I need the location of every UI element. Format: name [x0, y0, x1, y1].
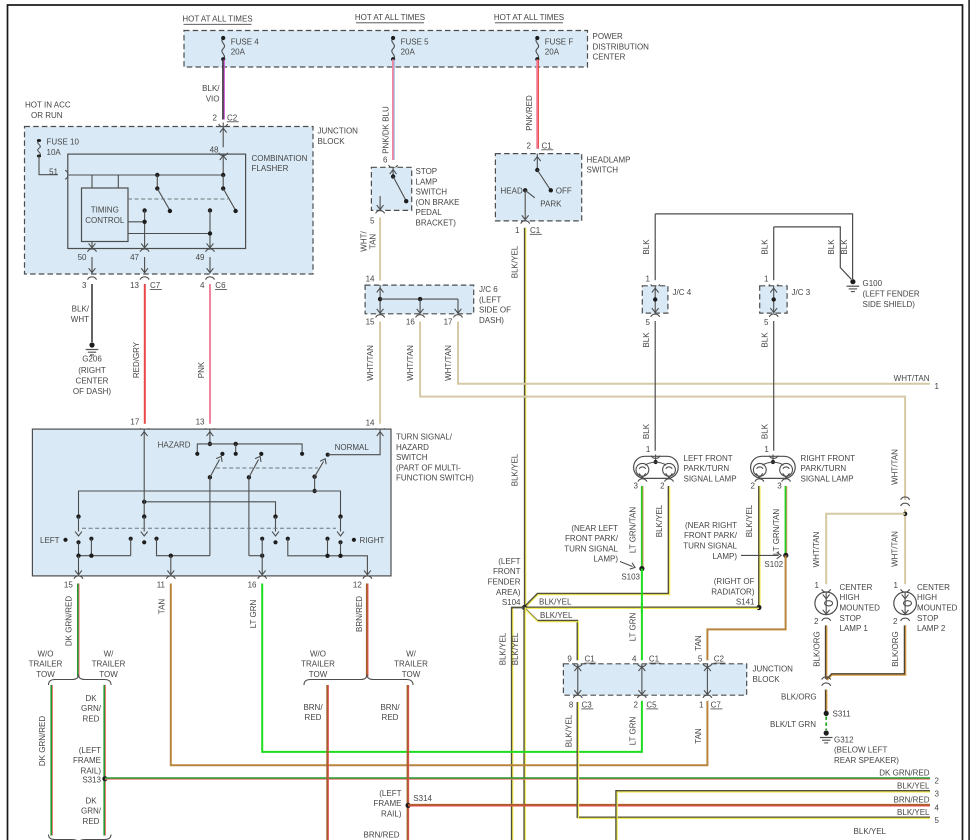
svg-text:5: 5: [764, 318, 769, 327]
wire DK GRN/RED S313 to stub 2: [105, 777, 930, 779]
svg-text:BLK/YEL: BLK/YEL: [854, 827, 887, 836]
svg-text:C2: C2: [714, 655, 725, 664]
svg-text:CENTER: CENTER: [593, 53, 626, 62]
svg-text:C7: C7: [711, 700, 722, 709]
svg-text:BLK/YEL: BLK/YEL: [511, 632, 520, 665]
svg-text:(LEFT: (LEFT: [379, 789, 401, 798]
svg-text:LT GRN: LT GRN: [249, 599, 258, 628]
svg-text:RIGHT: RIGHT: [360, 536, 385, 545]
svg-text:FRAME: FRAME: [374, 799, 402, 808]
svg-text:9: 9: [567, 655, 572, 664]
svg-text:5: 5: [698, 655, 703, 664]
svg-text:BLK/YEL: BLK/YEL: [745, 504, 754, 537]
svg-text:HIGH: HIGH: [917, 593, 937, 602]
wire BLK J/C4 to left lamp: [654, 321, 656, 451]
svg-text:RED: RED: [382, 713, 399, 722]
wire C2 to flasher pin 48: [222, 123, 224, 148]
svg-text:20A: 20A: [545, 48, 560, 57]
svg-text:2: 2: [814, 617, 819, 626]
flasher internal feed wire y175: [68, 155, 223, 176]
svg-text:BLK/: BLK/: [202, 84, 220, 93]
svg-text:1: 1: [894, 581, 899, 590]
svg-text:BLK/: BLK/: [72, 305, 90, 314]
svg-text:GRN/: GRN/: [81, 807, 102, 816]
stop lamp switch box: [371, 167, 411, 210]
wire BLK/YEL S104 branches down: [512, 608, 525, 840]
movable contact right: [338, 514, 342, 518]
brace right: [304, 675, 413, 686]
hazard feed bar: [209, 429, 211, 444]
svg-text:1: 1: [646, 445, 651, 454]
svg-text:13: 13: [196, 418, 205, 427]
svg-text:(RIGHT OF: (RIGHT OF: [714, 577, 755, 586]
svg-text:BLK: BLK: [760, 332, 769, 348]
svg-text:(LEFT: (LEFT: [479, 295, 501, 304]
splice S102: [783, 553, 788, 558]
svg-text:BRN/: BRN/: [303, 703, 323, 712]
blade pivot drop normal: [314, 477, 316, 491]
svg-text:6: 6: [383, 155, 388, 164]
wire fuse 10 to flasher pin 51: [39, 156, 58, 175]
svg-text:S103: S103: [621, 573, 640, 582]
svg-text:DK GRN/RED: DK GRN/RED: [879, 769, 929, 778]
svg-text:BLK: BLK: [642, 423, 651, 439]
svg-text:17: 17: [130, 418, 139, 427]
svg-text:5: 5: [935, 816, 940, 825]
svg-text:FENDER: FENDER: [488, 578, 521, 587]
svg-text:BLK/YEL: BLK/YEL: [564, 714, 573, 747]
left front park/turn signal lamp body: [634, 456, 679, 478]
svg-text:G312: G312: [834, 735, 854, 744]
wire PNK/RED from fuse F to headlamp switch: [536, 60, 538, 149]
svg-text:(LEFT FENDER: (LEFT FENDER: [863, 290, 920, 299]
svg-text:OF DASH): OF DASH): [73, 387, 112, 396]
svg-text:SWITCH: SWITCH: [416, 188, 448, 197]
BLK ground run lower: [774, 227, 852, 279]
svg-text:5: 5: [370, 216, 375, 225]
wire DK GRN/RED w/o trailer tow branch: [50, 685, 52, 836]
svg-text:11: 11: [157, 580, 166, 589]
headlamp switch box: [495, 154, 581, 221]
wire BLK J/C3 to right lamp: [773, 321, 775, 451]
svg-text:1: 1: [935, 382, 940, 391]
svg-text:DK GRN/RED: DK GRN/RED: [64, 596, 73, 646]
wire BLK/YEL left lamp to S104: [525, 486, 669, 606]
svg-text:PARK/TURN: PARK/TURN: [801, 464, 847, 473]
svg-text:SIDE OF: SIDE OF: [479, 306, 511, 315]
svg-text:RADIATOR): RADIATOR): [711, 587, 755, 596]
J/C 6 internals: [379, 285, 381, 314]
svg-text:FRONT PARK/: FRONT PARK/: [565, 534, 619, 543]
svg-text:BLK/LT GRN: BLK/LT GRN: [770, 720, 816, 729]
svg-text:MOUNTED: MOUNTED: [840, 604, 881, 613]
fuse 10 10A: [37, 139, 41, 158]
svg-text:13: 13: [130, 281, 139, 290]
pin 15 exit: [78, 556, 80, 576]
wire PNK/DK BLU from fuse 5 to stop lamp switch: [392, 60, 394, 161]
fuse 4 20A: [221, 36, 225, 61]
svg-text:15: 15: [366, 317, 375, 326]
svg-text:OFF: OFF: [556, 186, 572, 195]
svg-text:BLK: BLK: [642, 332, 651, 348]
wire LT GRN/TAN right lamp to S102: [785, 486, 787, 555]
wire BLK/ORG lamp1 down: [825, 625, 827, 678]
movable contact center: [273, 514, 277, 518]
svg-text:NORMAL: NORMAL: [335, 443, 370, 452]
svg-text:2: 2: [527, 141, 532, 150]
JB bottom internals: [577, 664, 579, 695]
svg-text:C1: C1: [649, 655, 660, 664]
wire BLK/WHT to G206: [91, 284, 93, 342]
svg-text:LEFT: LEFT: [40, 536, 60, 545]
svg-text:PEDAL: PEDAL: [416, 208, 443, 217]
hazard blade 2: [247, 475, 251, 479]
svg-text:TRAILER: TRAILER: [29, 660, 63, 669]
svg-text:HOT IN ACC: HOT IN ACC: [25, 101, 71, 110]
wire LT GRN switch 16 to JB pin 2: [262, 584, 642, 752]
svg-text:2: 2: [751, 481, 756, 490]
svg-text:SIGNAL LAMP: SIGNAL LAMP: [684, 474, 737, 483]
wire WHT/TAN J/C6-17 to stub 1: [458, 322, 930, 384]
wire DK GRN/RED switch 15 down: [77, 584, 79, 677]
svg-text:JUNCTION: JUNCTION: [318, 127, 359, 136]
svg-text:MOUNTED: MOUNTED: [917, 604, 958, 613]
svg-text:BLK/YEL: BLK/YEL: [511, 245, 520, 278]
hazard blade 1: [208, 475, 212, 479]
svg-text:SWITCH: SWITCH: [396, 453, 428, 462]
svg-text:BLOCK: BLOCK: [753, 675, 781, 684]
wire BLK/YEL JB pin 8 to stub 5: [577, 702, 930, 817]
svg-text:3: 3: [82, 281, 87, 290]
svg-text:BRN/RED: BRN/RED: [355, 596, 364, 632]
svg-text:DK: DK: [85, 796, 97, 805]
svg-text:STOP: STOP: [840, 614, 862, 623]
svg-text:TURN SIGNAL: TURN SIGNAL: [683, 542, 737, 551]
svg-text:(NEAR RIGHT: (NEAR RIGHT: [685, 521, 737, 530]
svg-text:47: 47: [130, 253, 139, 262]
J/C 6 box: [365, 285, 474, 314]
svg-text:VIO: VIO: [206, 94, 220, 103]
flasher output 47 network: [142, 208, 146, 212]
headlamp switch internals: [536, 154, 538, 170]
svg-text:RED: RED: [305, 713, 322, 722]
wht/tan branch to lamp 1: [903, 512, 907, 516]
svg-text:AREA): AREA): [496, 588, 521, 597]
svg-text:BLK/ORG: BLK/ORG: [781, 693, 817, 702]
svg-text:JUNCTION: JUNCTION: [753, 665, 794, 674]
svg-text:COMBINATION: COMBINATION: [252, 154, 308, 163]
svg-text:LAMP 2: LAMP 2: [917, 624, 946, 633]
svg-text:LAMP): LAMP): [594, 555, 619, 564]
svg-text:1: 1: [764, 274, 769, 283]
wire drop to timing control left: [91, 175, 93, 188]
RIGHT label and dot: [352, 538, 356, 542]
svg-text:TRAILER: TRAILER: [92, 660, 126, 669]
ground G312: [824, 730, 829, 735]
svg-text:15: 15: [64, 580, 73, 589]
wire BRN/RED S314 to stub 4: [408, 804, 930, 806]
svg-text:C7: C7: [150, 281, 161, 290]
wire RED/GRY C7 to switch 17: [144, 284, 146, 424]
pin 11 exit: [170, 556, 172, 576]
wire WHT/TAN J/C6-16 to CHMSL feed: [420, 322, 905, 500]
svg-text:TAN: TAN: [369, 234, 378, 250]
blade pivot drop 1: [209, 477, 211, 555]
svg-text:FRONT: FRONT: [493, 567, 521, 576]
J/C 3 box: [760, 286, 787, 313]
svg-text:HAZARD: HAZARD: [158, 441, 191, 450]
svg-text:J/C 6: J/C 6: [479, 285, 498, 294]
svg-text:1: 1: [764, 445, 769, 454]
svg-text:BLK/ORG: BLK/ORG: [812, 631, 821, 667]
svg-text:S314: S314: [413, 794, 432, 803]
input 17 drop: [143, 429, 145, 515]
svg-text:BRN/RED: BRN/RED: [893, 795, 929, 804]
svg-text:C1: C1: [530, 226, 541, 235]
svg-text:DK: DK: [85, 694, 97, 703]
svg-text:CENTER: CENTER: [840, 583, 873, 592]
wire BLK/ORG to S311: [825, 690, 827, 714]
svg-text:WHT/TAN: WHT/TAN: [366, 345, 375, 381]
svg-text:HOT AT ALL TIMES: HOT AT ALL TIMES: [182, 15, 252, 24]
splice S103: [639, 566, 644, 571]
svg-text:1: 1: [515, 226, 520, 235]
svg-text:SIGNAL LAMP: SIGNAL LAMP: [801, 474, 854, 483]
wire BLK/ORG lamp2 down and left: [826, 625, 904, 679]
svg-text:51: 51: [49, 167, 58, 176]
svg-text:5: 5: [646, 318, 651, 327]
inline connector (BLK/ORG): [822, 677, 831, 680]
svg-text:WHT/TAN: WHT/TAN: [812, 531, 821, 567]
svg-text:(RIGHT: (RIGHT: [78, 366, 106, 375]
svg-text:1: 1: [699, 700, 704, 709]
svg-text:20A: 20A: [401, 48, 416, 57]
splice S104: [522, 605, 527, 610]
normal feed from pin 14: [328, 429, 380, 455]
svg-text:BLK/YEL: BLK/YEL: [897, 808, 930, 817]
wire BLK to J/C 3: [773, 227, 775, 280]
svg-text:HIGH: HIGH: [840, 593, 860, 602]
wire TAN switch 11 to JB pin 1: [171, 584, 708, 766]
svg-text:FRONT PARK/: FRONT PARK/: [684, 531, 738, 540]
svg-text:2: 2: [935, 777, 940, 786]
blade pivot drop 2: [248, 477, 250, 555]
splice S311: [824, 711, 829, 716]
right front park/turn signal lamp body: [751, 456, 796, 478]
svg-text:HEAD: HEAD: [501, 186, 523, 195]
svg-text:OR RUN: OR RUN: [31, 111, 63, 120]
wire BLK/YEL S104 to S141: [525, 606, 759, 608]
svg-text:3: 3: [935, 789, 940, 798]
svg-text:LAMP 1: LAMP 1: [840, 624, 869, 633]
svg-text:WHT/TAN: WHT/TAN: [444, 345, 453, 381]
flasher switch 1: [155, 173, 159, 177]
svg-text:FUSE 4: FUSE 4: [231, 37, 260, 46]
svg-text:FLASHER: FLASHER: [252, 164, 289, 173]
svg-text:FUSE 10: FUSE 10: [47, 138, 80, 147]
svg-text:50: 50: [78, 253, 87, 262]
svg-text:TOW: TOW: [36, 670, 55, 679]
wire overlay LT GRN crossing: [641, 603, 643, 613]
svg-text:14: 14: [366, 275, 375, 284]
svg-text:PARK/TURN: PARK/TURN: [684, 464, 730, 473]
svg-text:WHT/TAN: WHT/TAN: [894, 374, 930, 383]
svg-text:BLK/YEL: BLK/YEL: [539, 598, 572, 607]
ground G100: [850, 279, 855, 284]
svg-text:C2: C2: [227, 113, 238, 122]
svg-text:BLK: BLK: [760, 423, 769, 439]
wire BLK/YEL S104 to JB pin 9: [524, 608, 577, 661]
svg-text:FUSE F: FUSE F: [545, 37, 574, 46]
svg-text:DASH): DASH): [479, 316, 504, 325]
movable contact left: [76, 514, 80, 518]
svg-text:(LEFT: (LEFT: [79, 746, 101, 755]
svg-text:W/: W/: [406, 649, 417, 658]
fuse 5 20A: [391, 36, 395, 61]
svg-text:S313: S313: [82, 775, 101, 784]
junction block (top) box: [25, 127, 314, 275]
svg-text:17: 17: [444, 317, 453, 326]
wire BLK/VIO from fuse 4 to C2: [222, 60, 224, 120]
svg-text:TAN: TAN: [694, 728, 703, 744]
J/C 4 box: [642, 286, 668, 313]
svg-text:C5: C5: [646, 700, 657, 709]
svg-text:RAIL): RAIL): [381, 809, 402, 818]
svg-text:LT GRN/TAN: LT GRN/TAN: [628, 507, 637, 553]
svg-text:S141: S141: [736, 598, 755, 607]
wire BLK/YEL from below to stub 3: [616, 791, 930, 840]
wire WHT/TAN J/C6-15 to switch 14: [379, 322, 381, 424]
pin 12 exit: [364, 570, 371, 574]
normal blade: [312, 475, 316, 479]
wire BRN/RED switch 12 down: [366, 584, 368, 677]
svg-text:W/O: W/O: [310, 649, 326, 658]
svg-text:STOP: STOP: [917, 614, 939, 623]
svg-text:3: 3: [634, 481, 639, 490]
fuse F 20A: [535, 36, 539, 61]
svg-text:BRN/RED: BRN/RED: [363, 831, 399, 840]
svg-text:TRAILER: TRAILER: [394, 660, 428, 669]
svg-text:LAMP): LAMP): [713, 552, 738, 561]
svg-text:(LEFT: (LEFT: [498, 557, 520, 566]
svg-text:(PART OF MULTI-: (PART OF MULTI-: [396, 463, 461, 472]
svg-text:W/: W/: [104, 649, 115, 658]
svg-text:BLK/YEL: BLK/YEL: [540, 611, 573, 620]
svg-text:GRN/: GRN/: [81, 704, 102, 713]
svg-text:PNK/DK BLU: PNK/DK BLU: [382, 106, 391, 154]
svg-text:8: 8: [569, 700, 574, 709]
wire BRN/RED w/o trailer tow branch: [326, 685, 328, 840]
svg-text:TOW: TOW: [309, 670, 328, 679]
svg-text:1: 1: [646, 274, 651, 283]
svg-text:POWER: POWER: [593, 32, 623, 41]
svg-text:BLK/YEL: BLK/YEL: [511, 453, 520, 486]
svg-text:LAMP: LAMP: [416, 177, 438, 186]
svg-text:20A: 20A: [231, 48, 246, 57]
svg-text:FUSE 5: FUSE 5: [401, 37, 430, 46]
svg-text:BLK: BLK: [760, 239, 769, 255]
input arrows: [141, 432, 148, 436]
flasher switch 2: [221, 173, 225, 177]
svg-text:CONTROL: CONTROL: [85, 216, 125, 225]
svg-text:4: 4: [200, 281, 205, 290]
svg-text:C6: C6: [215, 281, 226, 290]
svg-text:LT GRN: LT GRN: [629, 612, 638, 641]
right page edge strip: [968, 0, 970, 840]
svg-text:WHT/TAN: WHT/TAN: [891, 449, 900, 485]
power distribution center box: [184, 31, 588, 68]
fixed contacts group 3: [249, 555, 262, 557]
stop lamp switch internals: [392, 167, 394, 176]
svg-text:TAN: TAN: [157, 599, 166, 615]
svg-text:PARK: PARK: [540, 200, 562, 209]
svg-text:TAN: TAN: [694, 635, 703, 651]
svg-text:SIDE SHIELD): SIDE SHIELD): [863, 300, 916, 309]
line A: [79, 491, 341, 515]
svg-text:WHT/TAN: WHT/TAN: [406, 345, 415, 381]
svg-text:10A: 10A: [47, 148, 62, 157]
svg-text:DISTRIBUTION: DISTRIBUTION: [593, 42, 650, 51]
svg-text:REAR SPEAKER): REAR SPEAKER): [834, 756, 899, 765]
svg-text:BLK/YEL: BLK/YEL: [655, 504, 664, 537]
svg-text:WHT/TAN: WHT/TAN: [891, 531, 900, 567]
COMBINATION FLASHER box: [68, 154, 246, 248]
svg-text:C3: C3: [582, 700, 593, 709]
wire TAN S102 to JB pin 5: [707, 555, 785, 660]
svg-text:HOT AT ALL TIMES: HOT AT ALL TIMES: [355, 13, 425, 22]
svg-text:FRAME: FRAME: [73, 756, 101, 765]
flasher output 49 network: [208, 208, 212, 212]
svg-text:TURN SIGNAL/: TURN SIGNAL/: [396, 433, 453, 442]
fixed contacts group 2: [154, 537, 158, 541]
wire BLK/LT GRN dashed to G312: [825, 717, 827, 731]
svg-text:2: 2: [893, 617, 898, 626]
svg-text:RIGHT FRONT: RIGHT FRONT: [801, 454, 856, 463]
svg-text:LT GRN/TAN: LT GRN/TAN: [772, 509, 781, 555]
svg-text:DK GRN/RED: DK GRN/RED: [38, 716, 47, 766]
svg-text:TURN SIGNAL: TURN SIGNAL: [564, 544, 618, 553]
junction block (bottom) box: [563, 664, 746, 695]
svg-text:CENTER: CENTER: [917, 583, 950, 592]
svg-text:TOW: TOW: [402, 670, 421, 679]
pin 16 exit: [261, 556, 263, 576]
wire DK GRN/RED w/ trailer tow branch: [103, 685, 105, 836]
svg-text:S102: S102: [764, 560, 783, 569]
svg-text:BLK/YEL: BLK/YEL: [499, 632, 508, 665]
svg-text:TIMING: TIMING: [91, 205, 119, 214]
wire LT GRN S103 to JB pin 4: [641, 569, 643, 661]
svg-text:BRACKET): BRACKET): [416, 219, 457, 228]
svg-text:W/O: W/O: [38, 649, 54, 658]
svg-text:RED: RED: [83, 817, 100, 826]
wire BLK to J/C 4: [654, 214, 656, 280]
flasher dashed link: [128, 198, 228, 200]
flasher output 50: [91, 242, 93, 249]
wires to JB bottom edge: [91, 257, 93, 273]
wire BRN/RED w/ trailer tow branch: [407, 685, 409, 840]
svg-text:S311: S311: [833, 709, 852, 718]
wire LT GRN/TAN left lamp to S103: [641, 486, 643, 569]
svg-text:49: 49: [196, 253, 205, 262]
svg-text:J/C 4: J/C 4: [673, 288, 692, 297]
svg-text:2: 2: [660, 481, 665, 490]
wire drop to timing control right: [117, 175, 119, 188]
CHMSL feed: inline connector on WHT/TAN: [901, 497, 910, 500]
svg-text:4: 4: [632, 655, 637, 664]
svg-text:PNK/RED: PNK/RED: [525, 95, 534, 131]
svg-text:BLK: BLK: [840, 239, 849, 255]
svg-text:PNK: PNK: [197, 361, 206, 378]
